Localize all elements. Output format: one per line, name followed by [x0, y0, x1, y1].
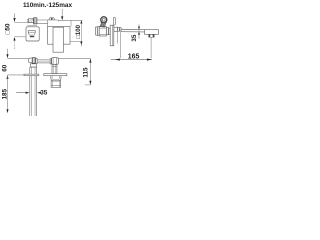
elbow washer — [50, 59, 51, 64]
handle knob ring — [101, 17, 107, 23]
leader line left (110-125 range) — [14, 13, 16, 18]
dimension 60 leader — [7, 49, 9, 55]
dimension 185 — [6, 75, 8, 79]
dimension 35 (pipe) — [16, 92, 26, 94]
right neck — [52, 64, 57, 73]
svg-text:110min.-125max: 110min.-125max — [23, 2, 72, 9]
svg-text:60: 60 — [1, 64, 8, 72]
horizontal pipe — [37, 59, 50, 61]
lever grip (top view) — [28, 19, 33, 23]
handle escutcheon plate square50 — [26, 27, 39, 41]
extension line outlet — [85, 84, 91, 86]
grip lower bar — [30, 36, 35, 37]
right flange — [44, 74, 67, 76]
svg-text:185: 185 — [2, 89, 9, 100]
leader line right (125max) — [61, 9, 63, 17]
extension line aerator — [150, 37, 152, 58]
left flange — [24, 74, 39, 76]
svg-text:115: 115 — [83, 67, 90, 78]
body ring — [97, 27, 99, 36]
dimension 165 — [111, 59, 152, 61]
dimension square100 — [80, 21, 82, 47]
svg-text:35: 35 — [40, 89, 48, 96]
lever stem block — [34, 18, 37, 24]
aerator — [149, 34, 155, 37]
outlet block — [51, 81, 61, 87]
dimension square100 extension top — [58, 19, 82, 21]
body end cap — [95, 27, 97, 35]
extension line nut top — [8, 57, 29, 59]
handle escutcheon upper rim — [27, 25, 37, 27]
spout escutcheon plate square100 — [48, 26, 70, 44]
left pipe — [29, 67, 31, 116]
dimension square100 extension bottom — [70, 40, 82, 42]
dimension 35 (spout drop) — [138, 24, 140, 39]
extension line flange — [8, 74, 40, 76]
body main — [99, 26, 106, 36]
svg-text:165: 165 — [128, 53, 140, 60]
spout blade (top view) — [53, 27, 64, 52]
extension line collar end — [120, 32, 122, 58]
extension line spout base — [116, 32, 118, 44]
wall bracket tab — [114, 17, 116, 25]
extension line elbow top — [59, 57, 91, 59]
wall plate (side) — [110, 25, 114, 46]
lever arm (hatched) — [100, 23, 106, 28]
spout collar — [114, 27, 118, 31]
svg-text:□50: □50 — [5, 23, 12, 34]
spout head — [145, 30, 159, 35]
svg-text:□100: □100 — [76, 24, 82, 38]
dimension 115 — [89, 59, 91, 85]
escutcheon cup — [51, 76, 61, 81]
svg-text:35: 35 — [131, 34, 138, 42]
left union nut — [29, 58, 33, 63]
valve body top edge (top view) — [37, 19, 59, 21]
right vertical edge line — [70, 20, 72, 26]
elbow body — [52, 58, 59, 65]
lever grip seen from front (arch) — [28, 31, 35, 36]
spout tube — [121, 28, 145, 30]
extension line handle top — [15, 21, 29, 23]
body spacer — [106, 28, 108, 35]
left neck — [30, 64, 36, 67]
spout top dome (screw boss) — [49, 17, 55, 20]
